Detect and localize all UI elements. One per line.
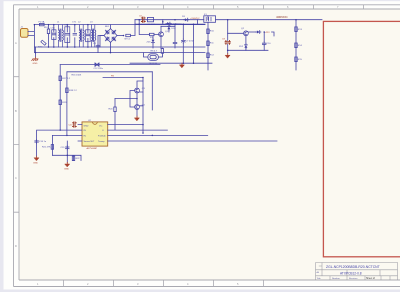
svg-text:GND: GND — [84, 125, 89, 127]
svg-text:AZ7500BP: AZ7500BP — [87, 147, 98, 150]
wire primary bottom bus — [130, 62, 212, 64]
svg-text:GND: GND — [33, 63, 38, 65]
X-cap CX1 — [52, 30, 56, 40]
junction dots input rails — [34, 24, 36, 26]
svg-text:Number: Number — [332, 277, 340, 280]
wire aux rail B — [67, 71, 152, 73]
resistor R21 — [51, 145, 53, 150]
resistor R14 — [295, 43, 297, 48]
diode D11 — [256, 31, 261, 34]
wire startup column — [207, 16, 209, 70]
polarized cap C5 (red) — [141, 17, 145, 22]
svg-text:+310VDC: +310VDC — [190, 18, 200, 20]
svg-text:D: D — [15, 244, 17, 248]
Y-caps pair — [73, 25, 77, 47]
frame row ticks left — [14, 77, 20, 213]
svg-text:C14 1n: C14 1n — [39, 141, 47, 143]
resistor R13 — [295, 27, 297, 32]
wire switch riser — [139, 24, 159, 34]
drive transformer T2 — [148, 54, 159, 61]
polarized cap C13 (red) — [73, 122, 77, 127]
connector J1 — [21, 29, 29, 38]
resistor R18 on VB — [66, 88, 68, 93]
cap C14 — [35, 140, 39, 144]
svg-text:R17 2.2: R17 2.2 — [62, 78, 70, 80]
cap CX3 — [86, 30, 91, 42]
X junction cap on rail A — [95, 63, 99, 66]
wire risers right of C7 — [194, 20, 198, 64]
chassis ground input — [32, 57, 38, 61]
IC U2 right pin wires — [108, 125, 277, 141]
X cap C6 — [148, 17, 154, 21]
frame column ticks top — [64, 5, 364, 9]
svg-text:R16 150K: R16 150K — [72, 75, 82, 77]
transistor Q2 — [244, 31, 249, 36]
wire VB drop R21 — [52, 135, 67, 155]
relay K1 — [204, 16, 216, 22]
common-mode choke L1 — [59, 30, 60, 40]
svg-text:Sheet of: Sheet of — [366, 277, 375, 280]
startup cap C9 (red) — [227, 33, 229, 40]
resistor R17 on VA — [59, 76, 61, 81]
svg-text:GND: GND — [33, 162, 38, 164]
wire bridge left to AC rail — [100, 36, 104, 48]
ground startup — [227, 44, 229, 53]
wire sense branch — [52, 141, 81, 162]
svg-text:O: O — [102, 130, 104, 132]
wire left cap branch — [98, 36, 104, 53]
transistor Q3 — [135, 88, 140, 93]
wire bridge top to AC rail — [110, 25, 112, 29]
title block — [316, 263, 398, 281]
wire relay to 400VDC — [216, 20, 323, 34]
diode D10 collector — [167, 25, 170, 30]
svg-text:Tcomp: Tcomp — [98, 141, 105, 143]
wire second rail — [135, 20, 205, 25]
svg-text:Revision: Revision — [349, 278, 358, 280]
svg-text:ZGL-NCP1200B8DB-R20-NCTCNT: ZGL-NCP1200B8DB-R20-NCTCNT — [326, 265, 380, 269]
wire bottom primary rail — [36, 47, 206, 57]
bridge rectifier BD1 — [104, 29, 117, 43]
ground primary bus — [180, 63, 185, 67]
driver vertical riser — [143, 72, 152, 133]
ground C14 — [34, 156, 39, 161]
svg-text:C12 220n: C12 220n — [94, 68, 104, 70]
wire feedback — [103, 77, 143, 79]
resistor R15 — [295, 57, 297, 62]
wire +310V top rail — [135, 19, 204, 21]
resistor R11 — [207, 41, 209, 46]
wire long vertical VB — [66, 72, 68, 136]
choke L3 — [92, 30, 93, 40]
thermistor RT1 — [126, 34, 131, 36]
wire bridge bottom — [110, 42, 112, 52]
wire driver pair — [130, 81, 143, 116]
resistor R10 — [207, 29, 209, 34]
ground C15 — [65, 162, 70, 167]
cap C15 — [66, 146, 70, 150]
IC U2 left pin wires — [60, 125, 82, 141]
wire +22V drop — [272, 32, 275, 36]
svg-text:SenseOUT: SenseOUT — [84, 141, 95, 143]
svg-text:R18 2.2: R18 2.2 — [69, 90, 77, 92]
fuse F1 — [40, 23, 45, 25]
cap C7 — [182, 24, 184, 39]
resistor R20 — [115, 98, 137, 100]
IC U2 supervisor — [82, 122, 108, 146]
wire bridge right to NTC — [117, 35, 124, 37]
svg-text:C: C — [15, 176, 17, 180]
svg-text:R8 4.7: R8 4.7 — [151, 50, 158, 52]
red isolation box — [323, 21, 400, 256]
cap C8 — [174, 24, 176, 41]
zener ZD2 — [245, 36, 247, 45]
transistor Q1 — [159, 32, 164, 37]
wire top AC rail — [34, 24, 205, 26]
wire J1 to fuse rail — [28, 25, 34, 53]
resistor R19 on VA — [59, 100, 61, 105]
ground driver — [135, 116, 140, 121]
cap C10 — [263, 32, 265, 42]
diode D9 — [184, 18, 189, 21]
svg-text:FuShdn: FuShdn — [98, 135, 106, 137]
emitter resistor R8 — [161, 49, 163, 54]
wire NTC to +310 rail riser — [130, 20, 135, 36]
svg-text:A: A — [15, 41, 17, 45]
transistor Q4 — [135, 105, 140, 110]
zener ZD1 — [152, 39, 155, 44]
svg-text:+22V: +22V — [265, 32, 271, 34]
diode D8 — [166, 22, 171, 25]
wire startup bus — [228, 33, 268, 50]
varistor RV1 — [48, 25, 50, 29]
svg-text:NTC1: NTC1 — [125, 39, 131, 41]
wire VA drop to C14 — [37, 130, 61, 156]
thermistor NTC diagonal — [41, 40, 46, 45]
svg-text:R21 47K: R21 47K — [42, 147, 51, 149]
cap C4 — [96, 44, 100, 48]
svg-text:F1 5A: F1 5A — [39, 20, 45, 23]
wire long vertical VA — [59, 65, 61, 131]
resistor R22 — [72, 156, 74, 161]
svg-text:ATXPCB12-0.8: ATXPCB12-0.8 — [340, 272, 362, 276]
svg-text:GND: GND — [64, 169, 69, 171]
frame column ticks bottom — [64, 280, 264, 287]
resistor chain 400V column — [295, 20, 297, 70]
svg-text:400VDC: 400VDC — [276, 15, 288, 19]
resistor R12 — [207, 53, 209, 58]
X-cap CX2 — [65, 27, 70, 43]
common-mode choke L2 — [79, 30, 80, 40]
svg-text:B: B — [15, 109, 17, 113]
gate resistor R7 — [149, 33, 154, 35]
wire aux rail A — [60, 64, 160, 66]
wire lower AC rail — [34, 46, 205, 48]
svg-text:NTC: NTC — [38, 47, 43, 49]
